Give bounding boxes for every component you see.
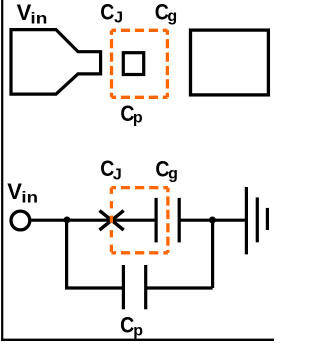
capacitor Cg left plate [155,198,158,243]
capacitor Cp right plate [144,265,147,309]
capacitor Cp left plate [122,265,125,309]
dashed junction box (top layout) [112,30,168,97]
capacitor Cg right plate [178,198,181,243]
wire: Cp to bottom right [146,286,213,289]
wire: Cg to ground [179,219,246,222]
ground symbol line 1 [245,187,248,254]
node dot left [64,217,71,224]
Josephson junction X [100,211,124,230]
wire: terminal to Cg left plate [30,219,155,222]
svg-text:J: J [113,167,122,184]
wire: bottom left to Cp [65,286,123,289]
svg-text:C: C [120,313,134,338]
feedline taper (Vin launcher) [11,30,101,95]
svg-text:C: C [100,0,114,25]
ground symbol line 2 [256,197,259,242]
svg-text:g: g [168,166,178,183]
wire: left node down [65,220,68,288]
ground plane rectangle [191,30,269,95]
junction island square [123,53,143,75]
dashed junction box (circuit) [111,188,167,253]
svg-text:J: J [114,9,123,26]
svg-text:p: p [133,109,143,126]
source terminal circle [11,211,30,230]
svg-text:V: V [17,0,32,25]
svg-text:V: V [7,179,22,204]
ground symbol line 3 [266,208,269,230]
wire: right node down [211,220,214,288]
svg-text:g: g [167,8,177,25]
svg-text:in: in [21,190,38,207]
node dot right [209,217,216,224]
svg-text:p: p [133,323,143,340]
svg-text:in: in [30,11,47,28]
